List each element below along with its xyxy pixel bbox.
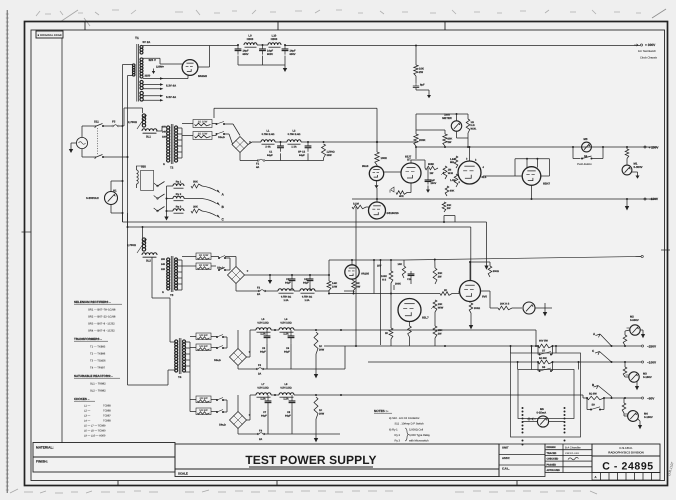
svg-text:Clock Chassis: Clock Chassis — [640, 57, 658, 60]
svg-text:TC988: TC988 — [103, 410, 111, 413]
relay contact dots right — [564, 407, 566, 409]
resistor 1.0M — [454, 174, 458, 187]
svg-text:■ ORIGINAL EDGE: ■ ORIGINAL EDGE — [38, 34, 63, 37]
svg-text:3K: 3K — [385, 332, 388, 335]
svg-text:10W: 10W — [332, 285, 338, 288]
svg-text:TRANSFORMERS –: TRANSFORMERS – — [74, 337, 102, 341]
svg-text:SL2 – TK982: SL2 – TK982 — [90, 390, 106, 393]
wire V6 box — [515, 158, 550, 160]
svg-text:SR2 — B67–22–1C/48: SR2 — B67–22–1C/48 — [88, 316, 116, 319]
box resistor 2ohm 10W a — [193, 120, 212, 128]
svg-text:RADIOPHYSICS DIVISION: RADIOPHYSICS DIVISION — [608, 451, 644, 455]
wire rail2 bottom — [235, 284, 237, 292]
svg-text:5R4GH: 5R4GH — [198, 75, 207, 78]
transformer T3 right winding — [174, 258, 177, 261]
wire V3 plate up — [410, 160, 412, 163]
svg-text:SCALE: SCALE — [178, 471, 188, 475]
svg-text:25V: 25V — [377, 265, 382, 268]
drawn traced checked passed approved cells — [545, 444, 592, 473]
svg-text:C.S.I.R.O.: C.S.I.R.O. — [619, 446, 632, 450]
svg-text:T3: T3 — [170, 293, 174, 297]
terminal -50V — [604, 397, 641, 399]
svg-text:T1 — TX983: T1 — TX983 — [90, 346, 106, 349]
svg-text:F5: F5 — [112, 120, 116, 124]
svg-text:H1: H1 — [113, 189, 117, 193]
resistor 5K 9W — [352, 281, 356, 291]
svg-text:1 2A: 1 2A — [291, 146, 296, 149]
svg-text:with Microswitch: with Microswitch — [409, 440, 429, 443]
capacitor 14uF 600V third — [284, 45, 286, 49]
svg-text:120M≈: 120M≈ — [156, 66, 164, 69]
switch S11 upper pole — [94, 126, 96, 128]
tube V6 6SN7 — [522, 167, 541, 186]
box resistor 50ohm 5W b — [196, 344, 211, 351]
wire relay box bottom dots — [522, 440, 524, 442]
svg-text:2W: 2W — [448, 141, 452, 144]
vertical -100 rail to box — [517, 362, 519, 370]
resistor 3.6K 10W — [327, 281, 331, 291]
capacitor 1uF 200V — [427, 177, 429, 180]
svg-text:T2: T2 — [170, 166, 174, 170]
resistor 10K 2W top — [414, 65, 418, 76]
wire dropping chain — [415, 45, 417, 65]
svg-text:SL2: SL2 — [146, 260, 151, 263]
meter M5 — [537, 416, 548, 427]
wire rail2 vr — [328, 260, 330, 275]
left margin line — [61, 30, 63, 443]
meter M4 — [628, 411, 639, 422]
tube V8 6V6 — [460, 281, 481, 302]
svg-text:MΩ: MΩ — [450, 161, 454, 164]
svg-text:L5 — L7 — TC989: L5 — L7 — TC989 — [84, 425, 106, 428]
resistor 1K 20W rail4 — [314, 397, 318, 419]
relay Ry1 resistor 50K — [191, 184, 202, 188]
resistor below -100V at M3 — [623, 367, 627, 377]
relay Ry3 coil — [173, 209, 184, 211]
wire SL1 to T2 — [142, 108, 144, 113]
wire 100K to V2 — [376, 165, 378, 166]
T1 325V top lead — [143, 57, 160, 59]
arrow down -150 rail — [626, 199, 628, 206]
svg-text:H300: H300 — [247, 38, 254, 41]
box resistor 10ohm 10W a — [196, 253, 211, 260]
svg-text:b) Ry 1: b) Ry 1 — [389, 429, 398, 432]
svg-text:ASSY.: ASSY. — [502, 456, 510, 460]
resistor 1500ohm 30W — [322, 144, 326, 158]
ground under 1uF — [427, 186, 429, 190]
relay box inner — [518, 370, 574, 419]
box resistor 2ohm 10W b — [193, 132, 212, 140]
transformer T4 right winding — [182, 340, 185, 343]
T4 input wires — [170, 341, 176, 343]
box resistor 10ohm 10W b — [196, 263, 211, 270]
svg-text:20K: 20K — [193, 206, 198, 209]
pot 10K WW — [433, 300, 437, 312]
svg-text:Ry 3: Ry 3 — [176, 206, 182, 209]
wire B+ feed down right side — [214, 107, 377, 109]
svg-text:NOTES :–: NOTES :– — [374, 409, 389, 413]
svg-text:0-150V: 0-150V — [643, 376, 652, 379]
arrow M3 lower — [636, 382, 638, 387]
choke L1 — [261, 140, 275, 142]
saturable reactor SL1 — [142, 129, 157, 131]
resistor 1K 20W rail3 — [314, 332, 318, 354]
svg-text:1.2A: 1.2A — [283, 398, 288, 401]
svg-text:T1: T1 — [135, 36, 139, 40]
pot 1M WW — [443, 166, 447, 179]
svg-text:+: + — [247, 269, 249, 273]
vertical -250 rail to box — [531, 346, 533, 353]
svg-text:A: A — [595, 475, 597, 479]
svg-text:200V: 200V — [431, 182, 437, 185]
capacitor 14uF 600V first — [237, 45, 239, 49]
resistor 20K 2W — [443, 134, 447, 146]
svg-text:3,000 Type Relay: 3,000 Type Relay — [409, 434, 431, 437]
ground under M1 — [632, 171, 638, 173]
choke rail2 a — [278, 289, 294, 291]
wire SL2 riser — [142, 227, 144, 238]
terminal +300V — [640, 44, 642, 46]
svg-text:0-300V: 0-300V — [634, 165, 643, 169]
svg-text:2A: 2A — [258, 373, 261, 376]
transformer T3 core — [170, 256, 172, 292]
relay contact dots left — [522, 407, 524, 409]
svg-text:DRAWN: DRAWN — [547, 446, 556, 449]
svg-text:0.5H 2.5Ω: 0.5H 2.5Ω — [257, 387, 268, 390]
junction dots AC bus — [122, 125, 124, 127]
T2 secondary taps — [177, 127, 183, 129]
wire rail2 bottom return — [329, 293, 440, 295]
resistor 15K 2W — [433, 326, 437, 338]
capacitor 14uF 600V second — [262, 45, 264, 49]
svg-text:MATERIAL:: MATERIAL: — [36, 445, 54, 449]
svg-text:64μF: 64μF — [267, 154, 273, 157]
transformer T1 secondary 6.3V winding b — [140, 91, 143, 94]
wire between chokes — [257, 44, 268, 46]
meter H1 — [105, 192, 118, 205]
wire y222 end arrow — [486, 222, 488, 266]
svg-text:Ry 2: Ry 2 — [395, 434, 401, 437]
notes brace — [405, 428, 409, 441]
svg-text:SR1 — B67–78–1C/48: SR1 — B67–78–1C/48 — [88, 309, 116, 312]
wire meter join rail — [467, 138, 469, 147]
svg-text:50K: 50K — [193, 181, 198, 184]
svg-text:–100V: –100V — [647, 361, 657, 365]
wire rail1 — [248, 142, 252, 145]
wire under tubes y199 — [123, 221, 487, 223]
relay common wires — [167, 185, 174, 187]
wire M1 — [626, 159, 628, 166]
S6 push button bracket — [572, 147, 574, 159]
svg-text:L4 —: L4 — — [84, 420, 91, 423]
svg-text:2,700Ω: 2,700Ω — [128, 121, 138, 124]
ground arrow rail4 — [315, 434, 317, 436]
svg-text:1.2A: 1.2A — [283, 333, 288, 336]
svg-text:V.W.N 1.3.61: V.W.N 1.3.61 — [565, 452, 579, 455]
wire 5V winding to V1 filament loop — [143, 45, 210, 47]
terminal -250V — [555, 345, 642, 347]
wire T3 to SR2 — [182, 256, 196, 258]
svg-text:40K: 40K — [399, 195, 404, 198]
svg-text:600V: 600V — [290, 53, 296, 56]
meter M3 lower — [629, 372, 639, 382]
svg-text:1.2A: 1.2A — [283, 299, 288, 302]
speaker and 40K resistor — [390, 187, 394, 193]
box resistor 3ohm 5W a — [196, 396, 211, 403]
svg-text:0-500V: 0-500V — [630, 319, 639, 322]
switch S11 gang dashed link — [97, 128, 99, 155]
pencil diagonal top right corner — [652, 9, 666, 18]
terminal -100V — [555, 361, 642, 363]
resistor above M1 — [625, 149, 629, 159]
svg-text:1.0M: 1.0M — [450, 179, 456, 182]
meter M2 — [630, 325, 640, 335]
ground under 6V6 — [469, 325, 473, 329]
svg-text:Ry 3: Ry 3 — [395, 440, 401, 443]
wire to C — [202, 211, 217, 216]
svg-text:–150V: –150V — [649, 197, 659, 201]
wire mid rail y147 — [416, 146, 657, 148]
svg-text:SATURABLE REACTORS:–: SATURABLE REACTORS:– — [74, 374, 113, 378]
svg-text:S3a,b: S3a,b — [214, 359, 221, 362]
resistor cathode V7 — [408, 326, 412, 337]
wire S9 branch — [586, 398, 588, 410]
capacitor C2 64uF — [307, 142, 309, 146]
wire V2 to V3 grid — [384, 171, 401, 173]
tube V7 6SL7 — [398, 299, 421, 322]
capacitor C1 64uF — [280, 142, 282, 146]
wire to A — [202, 186, 217, 191]
svg-text:L2 —: L2 — — [84, 410, 91, 413]
svg-text:60K: 60K — [450, 190, 455, 193]
svg-text:340: 340 — [161, 263, 166, 266]
transformer T1 secondary 325V winding — [140, 58, 143, 61]
svg-text:8μF: 8μF — [420, 84, 425, 87]
tube V3 6SJ7 — [401, 163, 421, 183]
svg-text:CHOKES –: CHOKES – — [74, 397, 90, 401]
choke L2 — [287, 140, 301, 142]
transformer T3 left winding — [167, 258, 170, 261]
relay Ry2 wire — [184, 198, 202, 200]
svg-text:T4: T4 — [178, 375, 182, 379]
svg-text:For Test Bench: For Test Bench — [638, 50, 657, 53]
svg-text:S1a,b: S1a,b — [218, 136, 225, 139]
wire to B — [202, 199, 217, 204]
choke L6 — [279, 328, 294, 330]
bridge rectifier SR3 — [230, 349, 247, 366]
fold tick mid right — [661, 249, 670, 251]
svg-text:Ry 2: Ry 2 — [176, 193, 182, 196]
wire T2 to rail1 — [182, 123, 193, 125]
svg-text:20K H S: 20K H S — [500, 303, 510, 306]
wire M5 leads — [523, 421, 538, 423]
transformer T1 secondary 5V winding — [140, 45, 143, 48]
rectifier tube V1 5R4GH — [182, 60, 198, 76]
svg-text:200Ω: 200Ω — [474, 307, 480, 310]
svg-text:1.2A: 1.2A — [260, 398, 265, 401]
svg-text:B A Chandler: B A Chandler — [565, 446, 581, 449]
svg-text:SR3 — B67–9 –1C/32: SR3 — B67–9 –1C/32 — [88, 323, 115, 326]
svg-text:5Ω 5W: 5Ω 5W — [539, 357, 547, 360]
csiro radiophysics division box — [592, 444, 660, 473]
svg-text:–250V: –250V — [647, 345, 657, 349]
resistor 200ohm top — [488, 266, 492, 277]
wire -150 rail — [352, 198, 657, 200]
svg-text:SL1: SL1 — [146, 136, 151, 139]
ground arrow rail2 — [269, 275, 271, 277]
original edge label box — [36, 31, 63, 38]
svg-text:64μF: 64μF — [303, 281, 309, 284]
svg-text:N: N — [163, 163, 165, 166]
wire rail1 return — [239, 153, 241, 161]
wire rail4 top — [271, 394, 279, 396]
wire relay box feeds — [531, 346, 533, 370]
svg-text:5Ω 5W: 5Ω 5W — [589, 393, 597, 396]
svg-text:0.5H 2.5Ω: 0.5H 2.5Ω — [257, 322, 268, 325]
resistor 30K 2W lower — [433, 268, 437, 284]
switch S11 lower pole — [94, 157, 96, 159]
arrow M4 — [639, 421, 641, 425]
transformer T2 left winding — [167, 126, 170, 129]
transformer T2 core — [170, 124, 172, 164]
ground under 8uF — [415, 88, 417, 90]
ground relay section — [164, 217, 168, 221]
terminal +250V — [644, 146, 646, 148]
T4 secondary taps — [185, 341, 191, 343]
border fold ticks — [85, 21, 517, 486]
svg-text:APPROVED: APPROVED — [547, 469, 561, 472]
transformer T1 secondary 6.3V winding a — [140, 80, 143, 83]
wire rail4 bottom — [237, 429, 239, 435]
svg-text:1W: 1W — [430, 172, 434, 175]
svg-text:2 4A: 2 4A — [265, 146, 270, 149]
wire y227 into 6V6 — [470, 227, 472, 281]
svg-text:C - 24895: C - 24895 — [602, 460, 654, 472]
wire AC to switch — [81, 126, 83, 137]
resistor 0.1M left of V5 — [352, 205, 366, 209]
resistor 1.84M — [454, 156, 458, 168]
choke L8 — [279, 393, 294, 395]
wire y260 to terminal — [404, 257, 641, 261]
resistor 805K 1W — [425, 166, 438, 170]
svg-text:64μF: 64μF — [261, 414, 267, 417]
svg-text:1.2A: 1.2A — [260, 333, 265, 336]
svg-text:TRACED: TRACED — [547, 452, 557, 455]
ground at AC source — [71, 142, 76, 144]
wire meter loop — [416, 113, 468, 115]
capacitor C10 — [410, 271, 412, 274]
svg-text:0.75H 2.4Ω: 0.75H 2.4Ω — [288, 133, 301, 136]
wire T4 to SR3 — [190, 336, 196, 338]
capacitor 8uF — [415, 83, 417, 86]
T3 secondary taps — [177, 259, 183, 261]
choke L5 — [256, 328, 271, 330]
resistor below -50V at M4 — [622, 403, 626, 413]
svg-text:H S: H S — [382, 278, 386, 281]
svg-text:0.1M: 0.1M — [353, 203, 359, 206]
meter M9 small — [523, 302, 535, 314]
svg-text:325 V: 325 V — [149, 58, 156, 62]
transformer T1 primary winding — [132, 64, 134, 66]
svg-text:–50V: –50V — [647, 397, 655, 401]
relay Ry1 switch — [157, 185, 159, 187]
relay Ry1 coil — [173, 184, 184, 186]
tube VR105 — [345, 265, 359, 279]
transformer T1 core — [136, 44, 138, 102]
box resistor 5ohm 5W b — [196, 408, 211, 415]
svg-text:+ 300V: + 300V — [645, 43, 656, 47]
wire rail3 to -250 — [324, 345, 538, 347]
svg-text:VR105: VR105 — [361, 273, 369, 276]
svg-text:2W: 2W — [419, 71, 423, 74]
svg-text:64μF: 64μF — [285, 414, 291, 417]
svg-text:200Ω: 200Ω — [493, 270, 499, 273]
svg-text:2A: 2A — [257, 293, 260, 296]
svg-text:S10: S10 — [141, 165, 146, 169]
svg-text:0.5H 3.5Ω: 0.5H 3.5Ω — [280, 322, 291, 325]
box resistor 50ohm 5W a — [196, 333, 211, 340]
fold tick mid left — [22, 231, 32, 233]
svg-text:20W: 20W — [319, 412, 325, 415]
svg-text:60V 5W: 60V 5W — [539, 340, 548, 343]
svg-text:TC988: TC988 — [103, 420, 111, 423]
ground arrow rail3 — [315, 369, 317, 372]
svg-text:320: 320 — [162, 136, 167, 139]
svg-text:2K: 2K — [444, 289, 447, 292]
relay box outer — [511, 353, 581, 437]
svg-text:64μF: 64μF — [285, 281, 291, 284]
svg-text:+ 250V: + 250V — [649, 146, 660, 150]
AC source — [76, 137, 87, 148]
relay Ry2 switch — [157, 198, 159, 200]
svg-text:350: 350 — [161, 258, 166, 261]
AC bus vertical left — [122, 126, 124, 222]
svg-text:S11: S11 — [94, 120, 99, 124]
svg-text:0.75H 2.4Ω: 0.75H 2.4Ω — [262, 133, 275, 136]
svg-text:6V6: 6V6 — [482, 295, 487, 299]
svg-text:TC988: TC988 — [103, 405, 111, 408]
wire T1 primary to AC bus — [123, 64, 134, 66]
svg-text:6SN7: 6SN7 — [543, 182, 550, 186]
wire M9 down arrow — [544, 303, 546, 308]
T1 secondary lead arrows — [143, 84, 160, 86]
svg-text:Ry 1: Ry 1 — [176, 181, 182, 184]
relay Ry3 resistor 20K — [191, 209, 202, 213]
wire box left edge to -250 rail — [510, 346, 512, 353]
choke L10 — [268, 43, 281, 45]
bridge rectifier SR2 — [228, 267, 245, 284]
svg-text:L6 — L8 — TC990: L6 — L8 — TC990 — [84, 430, 106, 433]
svg-text:CHECKED: CHECKED — [547, 458, 559, 461]
pencil marks top margin — [36, 10, 641, 26]
svg-text:0-300VAC: 0-300VAC — [86, 196, 99, 200]
svg-text:320: 320 — [161, 268, 166, 271]
wire V4 plate to rail — [469, 147, 471, 161]
svg-text:64μF: 64μF — [299, 154, 305, 157]
svg-text:350: 350 — [162, 126, 167, 129]
svg-text:SELENIUM RECTIFIERS –: SELENIUM RECTIFIERS – — [74, 300, 111, 304]
svg-text:W.W.: W.W. — [471, 127, 477, 130]
svg-text:M3: M3 — [584, 137, 588, 141]
svg-text:C.P.L.: C.P.L. — [502, 467, 510, 471]
resistor 200K — [414, 134, 418, 146]
resistor 200ohm cathode — [469, 303, 473, 313]
svg-text:6.3V 4A: 6.3V 4A — [166, 84, 176, 88]
resistor 100K above V2 — [375, 152, 379, 165]
wire rails into S7S8 — [294, 329, 536, 331]
svg-text:6.3V 4A: 6.3V 4A — [166, 95, 176, 99]
checked signature — [568, 457, 579, 459]
